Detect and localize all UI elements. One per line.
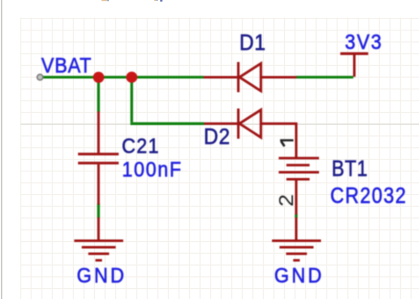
svg-text:GND: GND [274, 264, 324, 287]
svg-text:BT1: BT1 [332, 157, 368, 182]
svg-text:D2: D2 [204, 124, 231, 149]
svg-text:2: 2 [276, 194, 298, 206]
svg-text:GND: GND [77, 264, 127, 287]
svg-text:CR2032: CR2032 [330, 184, 407, 209]
svg-text:VBAT: VBAT [41, 55, 92, 78]
svg-text:D1: D1 [239, 31, 266, 55]
svg-text:C21: C21 [122, 135, 160, 158]
svg-text:3V3: 3V3 [345, 31, 383, 54]
svg-text:100nF: 100nF [122, 159, 182, 182]
